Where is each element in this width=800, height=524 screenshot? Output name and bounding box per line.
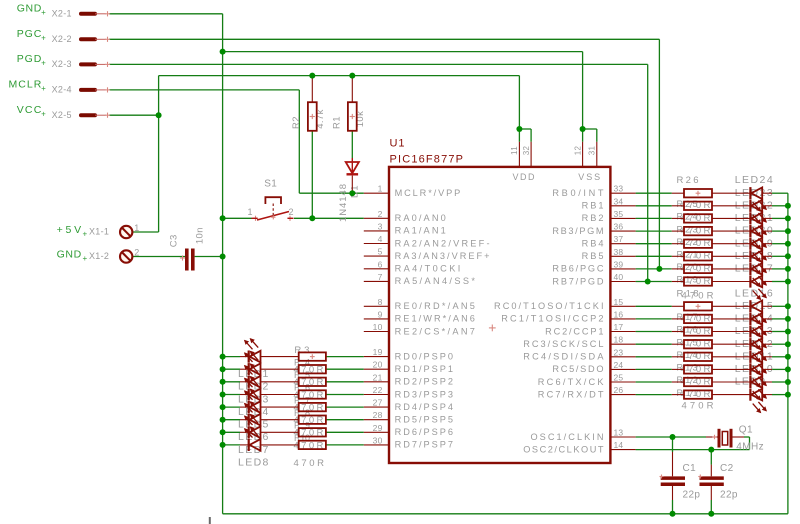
svg-text:1N4148: 1N4148 [338,184,349,222]
svg-text:14: 14 [614,440,624,450]
svg-text:10n: 10n [195,227,206,244]
svg-text:C1: C1 [683,463,697,474]
svg-text:39: 39 [614,259,624,269]
svg-text:+: + [41,84,46,93]
svg-text:R26: R26 [677,175,699,186]
svg-text:U1: U1 [390,138,405,150]
svg-text:RC4/SDI/SDA: RC4/SDI/SDA [523,352,604,362]
svg-text:32: 32 [522,146,531,156]
svg-text:17: 17 [614,322,624,332]
svg-text:470R: 470R [294,458,325,469]
svg-text:9: 9 [378,309,383,319]
svg-text:1: 1 [247,207,252,217]
svg-text:+: + [82,254,87,263]
svg-text:RD0/PSP0: RD0/PSP0 [395,351,453,361]
svg-text:470R: 470R [682,401,714,412]
svg-text:R2: R2 [291,116,302,129]
svg-text:RC5/SDO: RC5/SDO [552,364,603,374]
svg-text:18: 18 [614,335,624,345]
svg-text:LED8: LED8 [238,456,269,468]
svg-text:31: 31 [588,146,597,156]
svg-text:16: 16 [614,309,624,319]
svg-text:PGC: PGC [17,28,42,40]
svg-text:RB2: RB2 [582,213,604,223]
svg-text:X2-1: X2-1 [52,8,72,18]
svg-text:S1: S1 [264,178,277,189]
svg-text:24: 24 [614,360,624,370]
svg-text:RD3/PSP3: RD3/PSP3 [395,389,453,399]
svg-text:40: 40 [614,272,624,282]
svg-text:7: 7 [378,272,383,282]
svg-text:36: 36 [614,222,624,232]
svg-text:MCLR*/VPP: MCLR*/VPP [395,188,461,198]
svg-text:VDD: VDD [513,172,536,182]
svg-text:5: 5 [378,247,383,257]
svg-text:+: + [41,59,46,68]
svg-text:RC0/T1OSO/T1CKI: RC0/T1OSO/T1CKI [494,301,604,311]
svg-text:RC2/CCP1: RC2/CCP1 [545,326,603,336]
svg-text:LED7: LED7 [238,444,269,456]
svg-text:RD4/PSP4: RD4/PSP4 [395,402,453,412]
svg-text:X2-5: X2-5 [52,110,72,120]
svg-text:RE1/WR*/AN6: RE1/WR*/AN6 [395,314,475,324]
svg-text:RB1: RB1 [582,201,604,211]
svg-text:22p: 22p [720,489,738,500]
svg-text:OSC2/CLKOUT: OSC2/CLKOUT [523,444,604,454]
svg-text:22p: 22p [683,489,701,500]
svg-text:RD2/PSP2: RD2/PSP2 [395,377,453,387]
svg-text:38: 38 [614,247,624,257]
svg-text:8: 8 [378,297,383,307]
svg-text:GND: GND [17,2,42,14]
svg-text:RD7/PSP7: RD7/PSP7 [395,440,453,450]
svg-text:33: 33 [614,184,624,194]
svg-text:28: 28 [373,410,383,420]
svg-text:27: 27 [373,398,383,408]
svg-text:2: 2 [378,209,383,219]
svg-text:PIC16F877P: PIC16F877P [390,154,464,166]
svg-text:MCLR: MCLR [9,79,42,91]
svg-text:RC7/RX/DT: RC7/RX/DT [538,389,604,399]
svg-text:+: + [41,34,46,43]
svg-text:23: 23 [614,347,624,357]
svg-text:LED24: LED24 [735,174,773,186]
svg-text:35: 35 [614,209,624,219]
svg-text:3: 3 [378,221,383,231]
svg-text:30: 30 [373,435,383,445]
svg-text:20: 20 [373,360,383,370]
svg-text:RD1/PSP1: RD1/PSP1 [395,364,453,374]
svg-text:4MHz: 4MHz [736,442,764,453]
svg-text:+5V: +5V [57,224,82,236]
svg-text:LED6: LED6 [238,431,269,443]
svg-text:12: 12 [573,146,582,156]
svg-text:+: + [41,8,46,17]
svg-text:X2-4: X2-4 [52,85,72,95]
svg-text:25: 25 [614,373,624,383]
svg-text:4: 4 [378,234,383,244]
svg-text:2: 2 [289,207,294,217]
svg-text:1: 1 [378,184,383,194]
svg-text:PGD: PGD [17,53,42,65]
svg-text:10: 10 [373,322,383,332]
svg-text:VSS: VSS [578,172,600,182]
svg-text:R1: R1 [332,116,343,129]
svg-text:+: + [82,229,87,238]
svg-text:X1-2: X1-2 [89,251,109,261]
svg-text:21: 21 [373,372,383,382]
svg-text:RC6/TX/CK: RC6/TX/CK [538,377,605,387]
svg-text:6: 6 [378,259,383,269]
svg-text:19: 19 [373,347,383,357]
svg-text:RB6/PGC: RB6/PGC [552,264,603,274]
svg-text:R18: R18 [677,288,699,299]
svg-text:1: 1 [134,223,139,233]
svg-text:RE2/CS*/AN7: RE2/CS*/AN7 [395,326,475,336]
svg-text:RB4: RB4 [582,239,604,249]
svg-text:2: 2 [134,247,139,257]
svg-text:GND: GND [57,249,82,261]
svg-text:13: 13 [614,428,624,438]
svg-text:RA2/AN2/VREF-: RA2/AN2/VREF- [395,238,490,248]
svg-text:RD5/PSP5: RD5/PSP5 [395,415,453,425]
svg-text:RC3/SCK/SCL: RC3/SCK/SCL [523,339,603,349]
svg-text:C2: C2 [720,463,734,474]
svg-text:LED16: LED16 [735,287,773,299]
svg-text:+: + [41,109,46,118]
svg-text:Q1: Q1 [739,425,753,436]
svg-text:RE0/RD*/AN5: RE0/RD*/AN5 [395,301,475,311]
svg-text:RB7/PGD: RB7/PGD [552,276,603,286]
svg-text:RA5/AN4/SS*: RA5/AN4/SS* [395,276,476,286]
svg-text:C3: C3 [169,234,180,247]
svg-text:37: 37 [614,234,624,244]
svg-text:26: 26 [614,385,624,395]
svg-text:RD6/PSP6: RD6/PSP6 [395,427,453,437]
svg-text:11: 11 [510,146,519,155]
svg-text:RB5: RB5 [582,251,604,261]
svg-text:X1-1: X1-1 [89,227,109,237]
svg-text:15: 15 [614,297,624,307]
svg-text:29: 29 [373,423,383,433]
svg-text:RA4/T0CKI: RA4/T0CKI [395,264,461,274]
svg-text:34: 34 [614,196,624,206]
svg-text:X2-3: X2-3 [52,59,72,69]
svg-text:X2-2: X2-2 [52,34,72,44]
svg-text:VCC: VCC [17,104,42,116]
svg-text:22: 22 [373,385,383,395]
